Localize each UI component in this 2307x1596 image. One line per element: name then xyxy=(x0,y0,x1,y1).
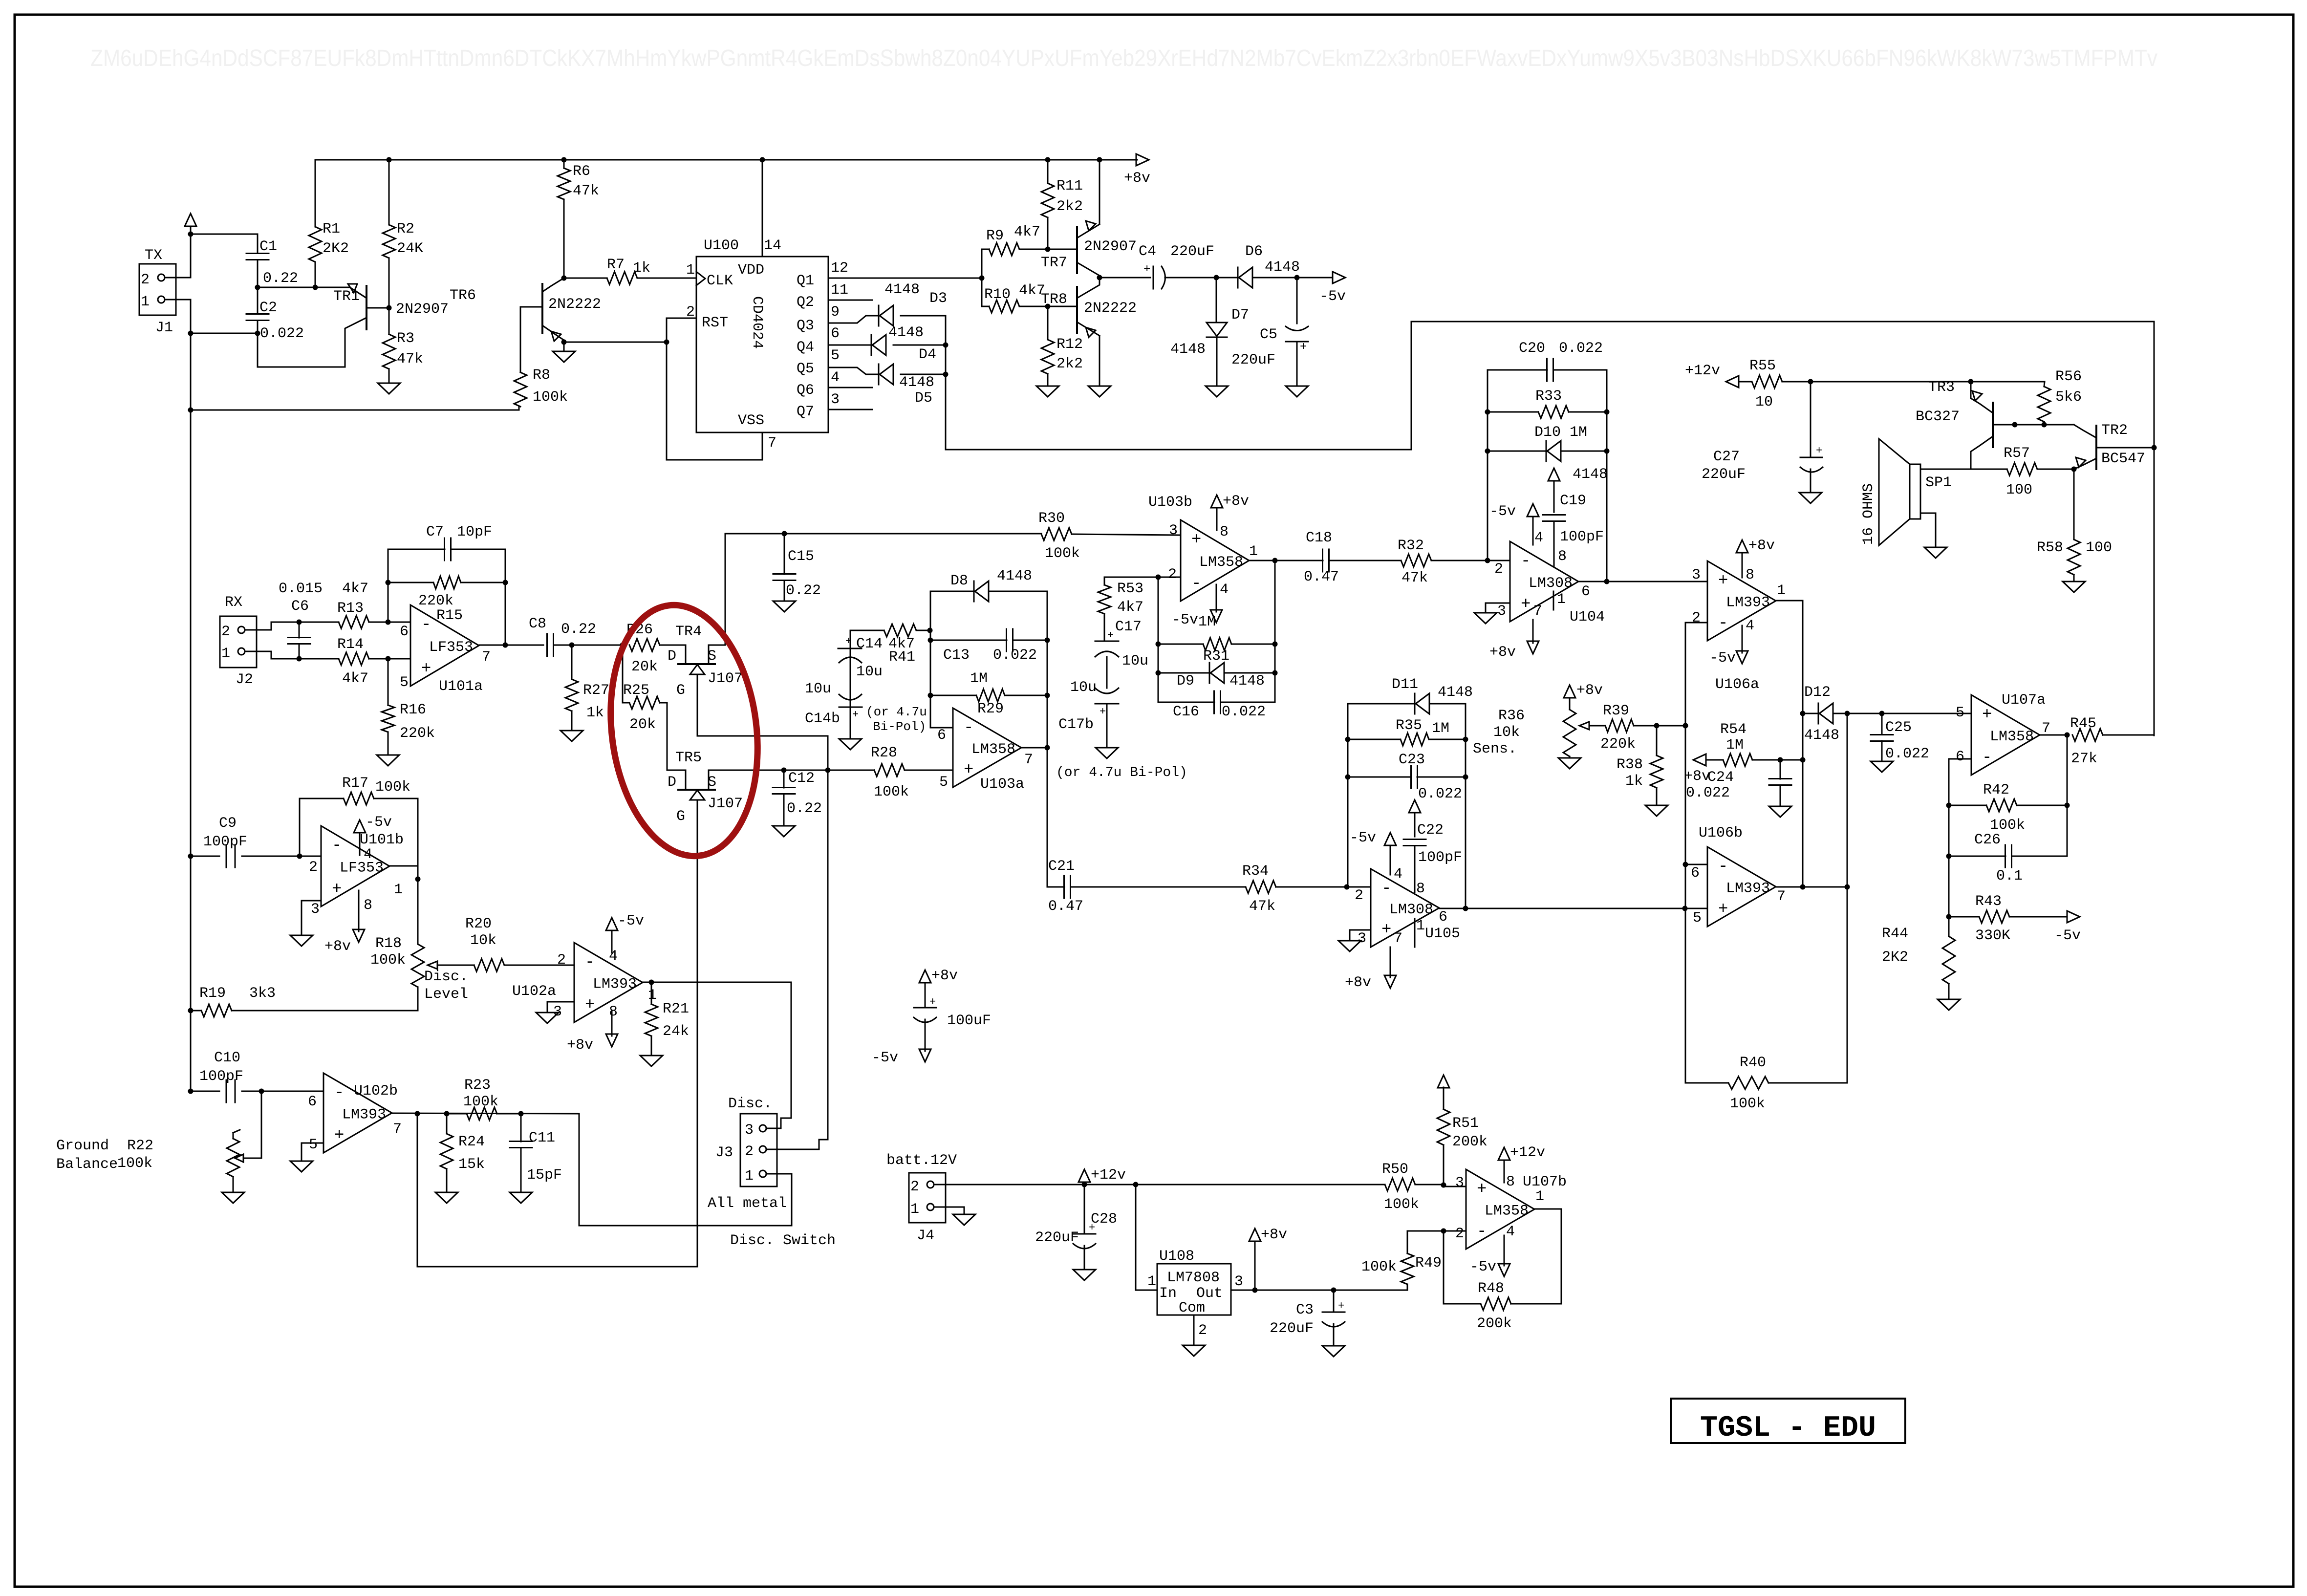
pin1 stub U104 xyxy=(1553,591,1554,610)
connector J3 xyxy=(708,1096,836,1249)
node R15 right xyxy=(503,580,508,585)
wire U107b out xyxy=(1511,1209,1561,1304)
svg-text:R49: R49 xyxy=(1415,1255,1442,1272)
svg-text:3k3: 3k3 xyxy=(249,985,276,1002)
svg-text:C22: C22 xyxy=(1417,822,1444,839)
svg-text:4: 4 xyxy=(1534,530,1543,546)
node R35 r xyxy=(1463,737,1468,742)
wire D11 row xyxy=(1348,703,1466,705)
wire xyxy=(257,321,259,333)
transistor TR3 BC327 xyxy=(1916,379,2015,469)
svg-text:U101a: U101a xyxy=(439,678,483,695)
svg-text:-5v: -5v xyxy=(872,1050,898,1066)
svg-text:100pF: 100pF xyxy=(203,834,247,850)
svg-text:Q2: Q2 xyxy=(797,294,814,311)
svg-text:100k: 100k xyxy=(463,1094,498,1110)
capacitor C27 220uF xyxy=(1702,445,1823,483)
wire R50 right xyxy=(1415,1185,1466,1186)
IC U100 CD4024 box xyxy=(686,237,828,452)
node C12 top xyxy=(781,768,787,773)
capacitor C21 xyxy=(1048,858,1083,915)
svg-text:27k: 27k xyxy=(2071,751,2097,767)
wire fb right xyxy=(505,582,506,645)
svg-text:U100: U100 xyxy=(704,237,739,254)
wire R9-R10 rail xyxy=(981,278,983,306)
node C2 bottom xyxy=(255,331,260,336)
wire C15 xyxy=(784,534,785,601)
svg-text:330K: 330K xyxy=(1975,927,2010,944)
wire R13 xyxy=(299,622,388,623)
svg-text:Disc.: Disc. xyxy=(728,1096,772,1112)
svg-text:D11: D11 xyxy=(1392,676,1418,693)
node R54 C24 xyxy=(1778,757,1783,763)
power U104 +8v xyxy=(1489,620,1539,661)
svg-text:C17: C17 xyxy=(1115,619,1142,635)
wire -in rail xyxy=(1685,623,1686,1083)
node TR6 emitter xyxy=(561,340,567,345)
svg-text:2: 2 xyxy=(1355,887,1363,904)
svg-text:D7: D7 xyxy=(1231,307,1249,324)
svg-text:D4: D4 xyxy=(919,346,936,363)
resistor R1 xyxy=(309,221,349,262)
svg-text:In: In xyxy=(1159,1285,1177,1302)
node rail R8 xyxy=(188,408,194,413)
wire C8 right xyxy=(554,645,623,646)
resistor R56 5k6 xyxy=(2038,368,2082,422)
svg-text:LF353: LF353 xyxy=(429,639,473,656)
svg-text:G: G xyxy=(676,808,685,825)
svg-text:LM358: LM358 xyxy=(1199,554,1243,571)
svg-text:2: 2 xyxy=(686,304,695,321)
node base1 xyxy=(2012,422,2018,428)
svg-text:2: 2 xyxy=(1198,1322,1207,1339)
svg-text:0.015: 0.015 xyxy=(279,581,323,597)
wire VSS pin7 xyxy=(762,432,763,460)
resistor R6 xyxy=(558,163,599,199)
svg-text:C10: C10 xyxy=(214,1050,240,1066)
svg-text:R48: R48 xyxy=(1478,1280,1504,1297)
wire R32 right xyxy=(1431,560,1510,561)
node U106a -in t xyxy=(1683,723,1688,729)
node +8v out xyxy=(1252,1288,1258,1293)
svg-text:220uF: 220uF xyxy=(1270,1320,1314,1337)
wire R25 right xyxy=(660,703,686,770)
node R42 r xyxy=(2065,803,2070,808)
resistor R49 100k xyxy=(1361,1253,1442,1284)
wire C4 left xyxy=(1100,277,1150,279)
svg-text:5: 5 xyxy=(400,674,409,691)
svg-text:2N2222: 2N2222 xyxy=(548,296,601,313)
diode D3 xyxy=(879,281,947,326)
wire R10 right xyxy=(1019,306,1077,307)
resistor R28 xyxy=(871,745,909,800)
svg-text:C16: C16 xyxy=(1173,704,1199,720)
svg-text:+: + xyxy=(1143,263,1150,276)
resistor R11 xyxy=(1041,178,1083,217)
svg-text:100k: 100k xyxy=(874,784,909,800)
node R6 rail xyxy=(561,157,567,163)
pin Q4 xyxy=(797,325,840,356)
svg-text:7: 7 xyxy=(1394,930,1402,947)
svg-text:220uF: 220uF xyxy=(1231,352,1275,368)
svg-text:2K2: 2K2 xyxy=(323,240,349,257)
svg-text:47k: 47k xyxy=(397,351,423,367)
node R39 U106a xyxy=(1683,723,1688,729)
wire R23 xyxy=(447,1113,521,1115)
node R2 rail xyxy=(387,157,392,163)
svg-text:+8v: +8v xyxy=(1345,974,1371,991)
ground R38 xyxy=(1645,805,1668,816)
svg-text:-: - xyxy=(1982,749,1992,767)
node D5 bus xyxy=(943,372,949,377)
wire R16 xyxy=(388,659,389,755)
capacitor C23 xyxy=(1399,752,1462,802)
svg-text:TR7: TR7 xyxy=(1041,255,1067,271)
svg-text:5: 5 xyxy=(309,1137,318,1153)
svg-text:R20: R20 xyxy=(465,916,492,932)
svg-text:R15: R15 xyxy=(436,607,463,624)
pin Q3 xyxy=(797,304,840,334)
svg-text:0.022: 0.022 xyxy=(1559,340,1603,357)
wire box to out xyxy=(1465,777,1466,908)
svg-text:R50: R50 xyxy=(1382,1161,1408,1178)
svg-text:-5v: -5v xyxy=(1709,650,1736,667)
svg-text:LM393: LM393 xyxy=(342,1107,386,1123)
resistor R29 1M xyxy=(970,670,1005,717)
node R17 left xyxy=(297,854,302,859)
wire fb right rail xyxy=(1606,370,1608,582)
ground R12 xyxy=(1036,386,1059,397)
wire R43 xyxy=(1949,916,2067,918)
wire C10 xyxy=(191,1091,323,1092)
wire R39 right xyxy=(1634,725,1685,727)
svg-text:7: 7 xyxy=(393,1121,402,1138)
power arrow R43 -5v xyxy=(2054,911,2081,944)
wire R49 xyxy=(1407,1231,1444,1290)
wire R53 top xyxy=(1104,577,1157,585)
wire U101b out xyxy=(390,866,418,879)
svg-text:4k7: 4k7 xyxy=(342,670,368,687)
svg-text:Out: Out xyxy=(1196,1285,1223,1302)
svg-text:7: 7 xyxy=(1024,752,1033,768)
svg-text:SP1: SP1 xyxy=(1925,474,1952,491)
wire D9 xyxy=(1158,672,1275,674)
wire C5 xyxy=(1296,278,1298,386)
ground U104 +in xyxy=(1474,603,1510,624)
svg-text:0.022: 0.022 xyxy=(1686,785,1730,801)
svg-text:LM393: LM393 xyxy=(593,976,637,993)
svg-text:R56: R56 xyxy=(2055,368,2082,385)
wire C23 row xyxy=(1348,739,1466,777)
node TR1 base xyxy=(387,305,392,311)
svg-text:6: 6 xyxy=(937,727,946,744)
svg-text:+8v: +8v xyxy=(1684,768,1710,785)
svg-text:LM393: LM393 xyxy=(1726,881,1770,897)
wire D3 anode xyxy=(901,315,946,317)
wire -in rail xyxy=(1158,577,1159,702)
wire rail down xyxy=(190,333,192,410)
svg-text:R1: R1 xyxy=(323,221,340,237)
wire R22 gnd xyxy=(233,1177,234,1192)
wire +12 rail xyxy=(934,1184,1385,1186)
svg-text:R22: R22 xyxy=(127,1138,153,1154)
svg-text:C20: C20 xyxy=(1519,340,1545,357)
node C23 l xyxy=(1345,775,1351,780)
svg-text:C8: C8 xyxy=(529,616,546,632)
svg-text:R38: R38 xyxy=(1617,756,1643,773)
svg-text:R2: R2 xyxy=(397,221,414,237)
svg-text:D: D xyxy=(668,774,676,791)
wire out rail down xyxy=(2067,735,2068,856)
power U103b -5v xyxy=(1172,584,1222,628)
wire J2 pin2 xyxy=(245,622,299,630)
ground C14b xyxy=(839,739,862,750)
svg-text:C14b: C14b xyxy=(805,711,840,727)
ground C28 xyxy=(1073,1270,1096,1280)
node U106b -in xyxy=(1683,862,1688,867)
node R31 r xyxy=(1272,642,1278,647)
pin Q7 xyxy=(797,391,872,420)
transistor TR8 2N2222 xyxy=(1041,278,1137,386)
svg-text:+: + xyxy=(1191,531,1201,549)
resistor R53 xyxy=(1098,581,1143,616)
svg-text:D10: D10 xyxy=(1534,424,1561,441)
svg-text:C9: C9 xyxy=(219,815,237,832)
svg-text:R29: R29 xyxy=(977,701,1004,717)
svg-text:Balance: Balance xyxy=(56,1156,118,1173)
wire R48 left xyxy=(1444,1231,1481,1304)
resistor R39 xyxy=(1600,703,1636,753)
node R33 l xyxy=(1485,410,1490,415)
capacitor C26 xyxy=(1974,832,2023,884)
wire R42 xyxy=(1949,805,2067,806)
node TR6 collector xyxy=(561,276,567,281)
svg-text:220k: 220k xyxy=(400,725,435,742)
node C6 top xyxy=(297,620,302,625)
node U108 in xyxy=(1133,1182,1139,1187)
diode D9 xyxy=(1177,663,1265,690)
svg-text:6: 6 xyxy=(831,325,840,342)
svg-text:R55: R55 xyxy=(1749,358,1776,374)
wire U107a out xyxy=(2041,734,2067,736)
wire U106a out xyxy=(1777,600,1803,602)
wire R6 bottom xyxy=(563,199,565,278)
resistor R16 xyxy=(382,702,435,742)
svg-text:-: - xyxy=(1521,552,1531,571)
resistor R30 xyxy=(1038,510,1080,562)
op-amp U104 xyxy=(1494,530,1605,625)
svg-text:Level: Level xyxy=(424,986,468,1003)
power R54 +8v xyxy=(1684,754,1723,785)
svg-text:3: 3 xyxy=(1497,603,1506,620)
wire C17 mid xyxy=(1106,657,1108,688)
wire base row xyxy=(258,287,343,288)
svg-text:47k: 47k xyxy=(1249,898,1275,915)
speaker SP1 xyxy=(1860,439,1952,545)
svg-text:1: 1 xyxy=(1557,591,1566,608)
svg-text:+8v: +8v xyxy=(1223,493,1249,510)
svg-text:U102a: U102a xyxy=(512,983,556,1000)
svg-text:Com: Com xyxy=(1179,1300,1205,1316)
svg-text:4k7: 4k7 xyxy=(342,581,368,597)
capacitor C24 xyxy=(1686,769,1791,801)
node U103b out xyxy=(1272,558,1278,563)
capacitor C5 220uF xyxy=(1231,326,1308,368)
svg-text:Q4: Q4 xyxy=(797,339,814,356)
svg-text:+: + xyxy=(845,635,852,647)
pin Q6 xyxy=(797,369,872,399)
wire D6 anode xyxy=(1252,277,1297,279)
power U104 -5v xyxy=(1489,503,1539,545)
svg-text:U107b: U107b xyxy=(1523,1174,1567,1190)
wire R19 xyxy=(191,1010,418,1012)
svg-text:R33: R33 xyxy=(1535,388,1562,405)
svg-text:R53: R53 xyxy=(1117,581,1143,597)
wire U102b fb loop xyxy=(417,1114,697,1267)
svg-text:1M: 1M xyxy=(970,670,988,687)
svg-text:3: 3 xyxy=(1234,1273,1243,1290)
svg-text:R13: R13 xyxy=(337,600,364,617)
diode D12 xyxy=(1804,684,1839,744)
svg-text:Q3: Q3 xyxy=(797,318,814,334)
svg-text:0.47: 0.47 xyxy=(1304,569,1339,585)
node R29 l xyxy=(928,693,933,698)
label ground balance xyxy=(56,1138,118,1173)
wire xyxy=(257,260,259,287)
wire R15 xyxy=(388,582,505,583)
svg-text:+8v: +8v xyxy=(567,1037,593,1054)
svg-text:C6: C6 xyxy=(291,598,309,615)
svg-text:Q7: Q7 xyxy=(797,404,814,420)
svg-text:RST: RST xyxy=(702,315,728,331)
svg-text:8: 8 xyxy=(1506,1174,1515,1190)
svg-text:-: - xyxy=(1718,614,1728,633)
svg-text:-5v: -5v xyxy=(1489,503,1516,520)
ground C15 xyxy=(773,601,796,612)
resistor R50 100k xyxy=(1382,1161,1419,1213)
node R11 rail xyxy=(1045,157,1051,163)
svg-text:220uF: 220uF xyxy=(1035,1229,1079,1246)
wire R3 bottom xyxy=(388,369,390,383)
svg-text:R6: R6 xyxy=(573,163,590,180)
wire row1092 xyxy=(725,533,1041,535)
node C13 r xyxy=(1045,638,1050,643)
node C6 bottom xyxy=(297,656,302,662)
svg-text:47k: 47k xyxy=(573,183,599,199)
svg-text:C19: C19 xyxy=(1560,493,1586,509)
svg-text:TR5: TR5 xyxy=(675,750,702,766)
wire out to C8 xyxy=(505,645,543,646)
svg-text:LF353: LF353 xyxy=(340,860,384,877)
svg-text:100pF: 100pF xyxy=(1418,849,1462,866)
resistor R13 xyxy=(337,581,369,628)
svg-text:+: + xyxy=(1718,900,1728,919)
svg-text:5: 5 xyxy=(1956,705,1964,721)
svg-text:0.022: 0.022 xyxy=(993,647,1037,664)
op-amp U107a xyxy=(1956,692,2050,775)
svg-text:15pF: 15pF xyxy=(527,1167,562,1184)
wire J2 pin1 xyxy=(245,651,299,659)
wire R6 xyxy=(563,160,565,168)
faint watermark text xyxy=(90,45,2157,71)
svg-text:C25: C25 xyxy=(1885,719,1912,736)
svg-text:100: 100 xyxy=(2086,539,2112,556)
svg-text:LM308: LM308 xyxy=(1389,902,1433,918)
svg-text:47k: 47k xyxy=(1401,570,1428,586)
wire R41 xyxy=(850,630,930,631)
svg-text:0.1: 0.1 xyxy=(1996,868,2023,884)
node D9 r xyxy=(1272,670,1278,676)
svg-text:8: 8 xyxy=(1220,524,1229,540)
svg-text:R17: R17 xyxy=(342,775,368,792)
svg-text:D: D xyxy=(668,648,676,665)
node U101a +in xyxy=(386,656,391,662)
wire D10 xyxy=(1488,451,1608,483)
svg-text:+12v: +12v xyxy=(1510,1144,1545,1161)
svg-text:-: - xyxy=(964,719,973,737)
ground R3 xyxy=(378,383,400,394)
svg-text:-: - xyxy=(1191,575,1201,593)
resistor R34 xyxy=(1242,863,1276,915)
wire R25 left xyxy=(623,702,629,704)
svg-text:7: 7 xyxy=(768,435,776,452)
svg-text:4k7: 4k7 xyxy=(1117,599,1143,616)
svg-text:+: + xyxy=(1107,629,1114,642)
svg-text:R24: R24 xyxy=(458,1134,485,1150)
wire R57 xyxy=(1971,469,2074,470)
wire C12 xyxy=(783,770,785,826)
node C11 top xyxy=(518,1111,524,1117)
svg-text:0.022: 0.022 xyxy=(260,325,304,342)
svg-text:10k: 10k xyxy=(1493,724,1520,741)
ground U108 xyxy=(1183,1345,1205,1356)
svg-text:7: 7 xyxy=(1777,888,1786,905)
node C13 l xyxy=(928,638,933,643)
svg-text:LM7808: LM7808 xyxy=(1167,1270,1220,1286)
wire R2 top xyxy=(388,160,390,225)
node TR2 base xyxy=(2152,445,2157,451)
svg-text:4: 4 xyxy=(1394,866,1402,883)
wire fb left rail xyxy=(1487,370,1488,561)
wire U106b -in xyxy=(1685,864,1707,865)
svg-text:+: + xyxy=(1381,921,1391,939)
node U101b out xyxy=(415,877,421,882)
svg-text:+8v: +8v xyxy=(1261,1227,1287,1243)
svg-text:TR1: TR1 xyxy=(333,288,360,305)
svg-text:R39: R39 xyxy=(1603,703,1629,719)
svg-text:C15: C15 xyxy=(788,548,814,565)
svg-text:100k: 100k xyxy=(117,1155,152,1172)
svg-text:+: + xyxy=(852,709,859,721)
resistor R54 1M xyxy=(1720,721,1752,766)
node U107b -in xyxy=(1441,1229,1446,1234)
power U107b -5v xyxy=(1470,1235,1510,1276)
node base2 xyxy=(2042,422,2047,428)
wire U108 in xyxy=(1136,1185,1157,1290)
resistor R57 100 xyxy=(2004,445,2037,498)
node R35 l xyxy=(1345,737,1351,742)
svg-text:6: 6 xyxy=(1439,909,1447,926)
wire R22 wiper xyxy=(243,1091,261,1158)
wire speaker gnd xyxy=(1920,513,1936,547)
wire U105 to U106b xyxy=(1466,908,1685,909)
svg-text:8: 8 xyxy=(1558,548,1567,565)
resistor R14 xyxy=(337,636,369,687)
power arrow +8v rail xyxy=(1124,154,1150,187)
node R15 left xyxy=(386,580,391,585)
svg-text:4148: 4148 xyxy=(1265,259,1300,276)
svg-text:100k: 100k xyxy=(375,779,410,796)
